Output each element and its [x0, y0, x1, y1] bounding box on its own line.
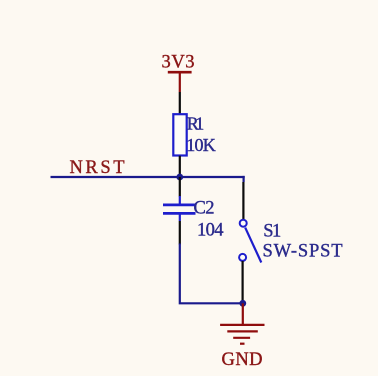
switch S1 contact circle bottom — [239, 254, 246, 261]
ground bar 2 — [227, 330, 257, 332]
switch S1 lever — [245, 228, 261, 263]
capacitor C2 bottom lead — [179, 214, 181, 221]
capacitor C2 pin 2 — [179, 221, 181, 245]
wire NRST horizontal — [51, 176, 245, 178]
svg-text:GND: GND — [222, 350, 263, 370]
resistor R1 — [173, 114, 186, 155]
svg-text:10K: 10K — [186, 135, 216, 155]
capacitor C2 plate 1 — [163, 204, 196, 207]
ground bar 1 — [220, 324, 264, 326]
power port 3V3 stub — [179, 72, 181, 92]
switch S1 pin 1 — [242, 182, 244, 220]
capacitor C2 pin 1 — [179, 177, 181, 197]
ground stub — [242, 303, 244, 325]
ground bar 3 — [233, 337, 250, 339]
ground bar 4 — [240, 343, 245, 345]
capacitor C2 top lead — [179, 196, 181, 204]
svg-text:C2: C2 — [194, 199, 215, 219]
switch S1 pin 2 — [242, 261, 244, 303]
svg-text:NRST: NRST — [70, 158, 125, 178]
power port 3V3 bar — [168, 71, 192, 74]
svg-text:104: 104 — [197, 221, 224, 241]
svg-text:S1: S1 — [263, 222, 281, 242]
junction node NRST — [176, 174, 183, 181]
switch S1 contact circle top — [240, 220, 247, 227]
resistor R1 pin 1 — [179, 92, 181, 115]
junction node bottom — [239, 300, 246, 307]
wire capacitor to bottom rail — [180, 244, 243, 304]
resistor R1 pin 2 — [179, 156, 181, 177]
svg-text:3V3: 3V3 — [162, 53, 195, 73]
capacitor C2 plate 2 — [163, 212, 196, 215]
svg-text:R1: R1 — [187, 114, 205, 134]
svg-text:SW-SPST: SW-SPST — [263, 242, 343, 262]
wire corner to switch branch — [243, 176, 245, 182]
